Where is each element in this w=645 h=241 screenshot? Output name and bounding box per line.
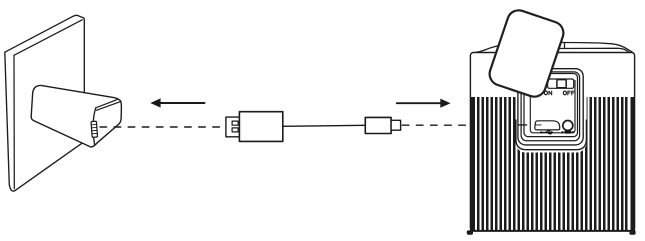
wall plate front-left inner edge xyxy=(13,55,15,189)
OFF label xyxy=(563,91,574,95)
speaker left foot xyxy=(467,230,473,234)
cable xyxy=(283,125,366,126)
charging port inner tick xyxy=(536,124,542,126)
aux jack xyxy=(563,121,573,131)
speaker bottom edge xyxy=(470,230,634,232)
power switch knob xyxy=(557,80,566,88)
open lid flap xyxy=(487,7,567,99)
USB-A plug contact 1 xyxy=(232,121,238,125)
wall plate outer outline xyxy=(5,15,85,191)
speaker body xyxy=(470,53,634,232)
recessed panel outline 3 xyxy=(518,69,583,145)
USB icon under port xyxy=(540,130,553,135)
micro-USB charging port xyxy=(535,121,560,130)
charger port-face left edge xyxy=(93,108,96,145)
micro-USB plug tip xyxy=(391,120,401,130)
USB-A plug body xyxy=(239,112,282,142)
charger USB-A socket xyxy=(91,121,97,137)
ON label xyxy=(544,91,551,95)
right arrow xyxy=(397,102,442,104)
wall plate front-top inner edge xyxy=(14,20,82,56)
recessed panel floor outline xyxy=(530,81,575,133)
recessed panel outer lip (bottom U) xyxy=(516,120,587,150)
recessed panel outline 1 (innermost) xyxy=(524,74,578,137)
recessed panel white well xyxy=(516,67,587,153)
speaker right foot xyxy=(629,230,635,234)
charger port-face top edge double line xyxy=(96,99,120,110)
guide dash inside panel xyxy=(519,124,527,126)
USB-A plug contact 2 xyxy=(232,128,238,132)
speaker top bump xyxy=(476,42,633,52)
usb charger adapter body xyxy=(31,85,121,147)
dashed line from micro-USB plug to speaker xyxy=(402,124,468,126)
speaker top bump inner line xyxy=(556,48,629,52)
USB-A plug shield xyxy=(226,117,242,137)
left arrow xyxy=(159,102,205,104)
speaker lid hinge tick xyxy=(564,43,566,49)
power switch xyxy=(548,79,574,88)
recessed panel outline 2 xyxy=(521,72,580,141)
speaker grille xyxy=(470,97,634,231)
dashed line from charger to USB-A plug xyxy=(100,126,223,128)
micro-USB plug body xyxy=(365,117,391,133)
aux icon under jack xyxy=(561,131,574,134)
